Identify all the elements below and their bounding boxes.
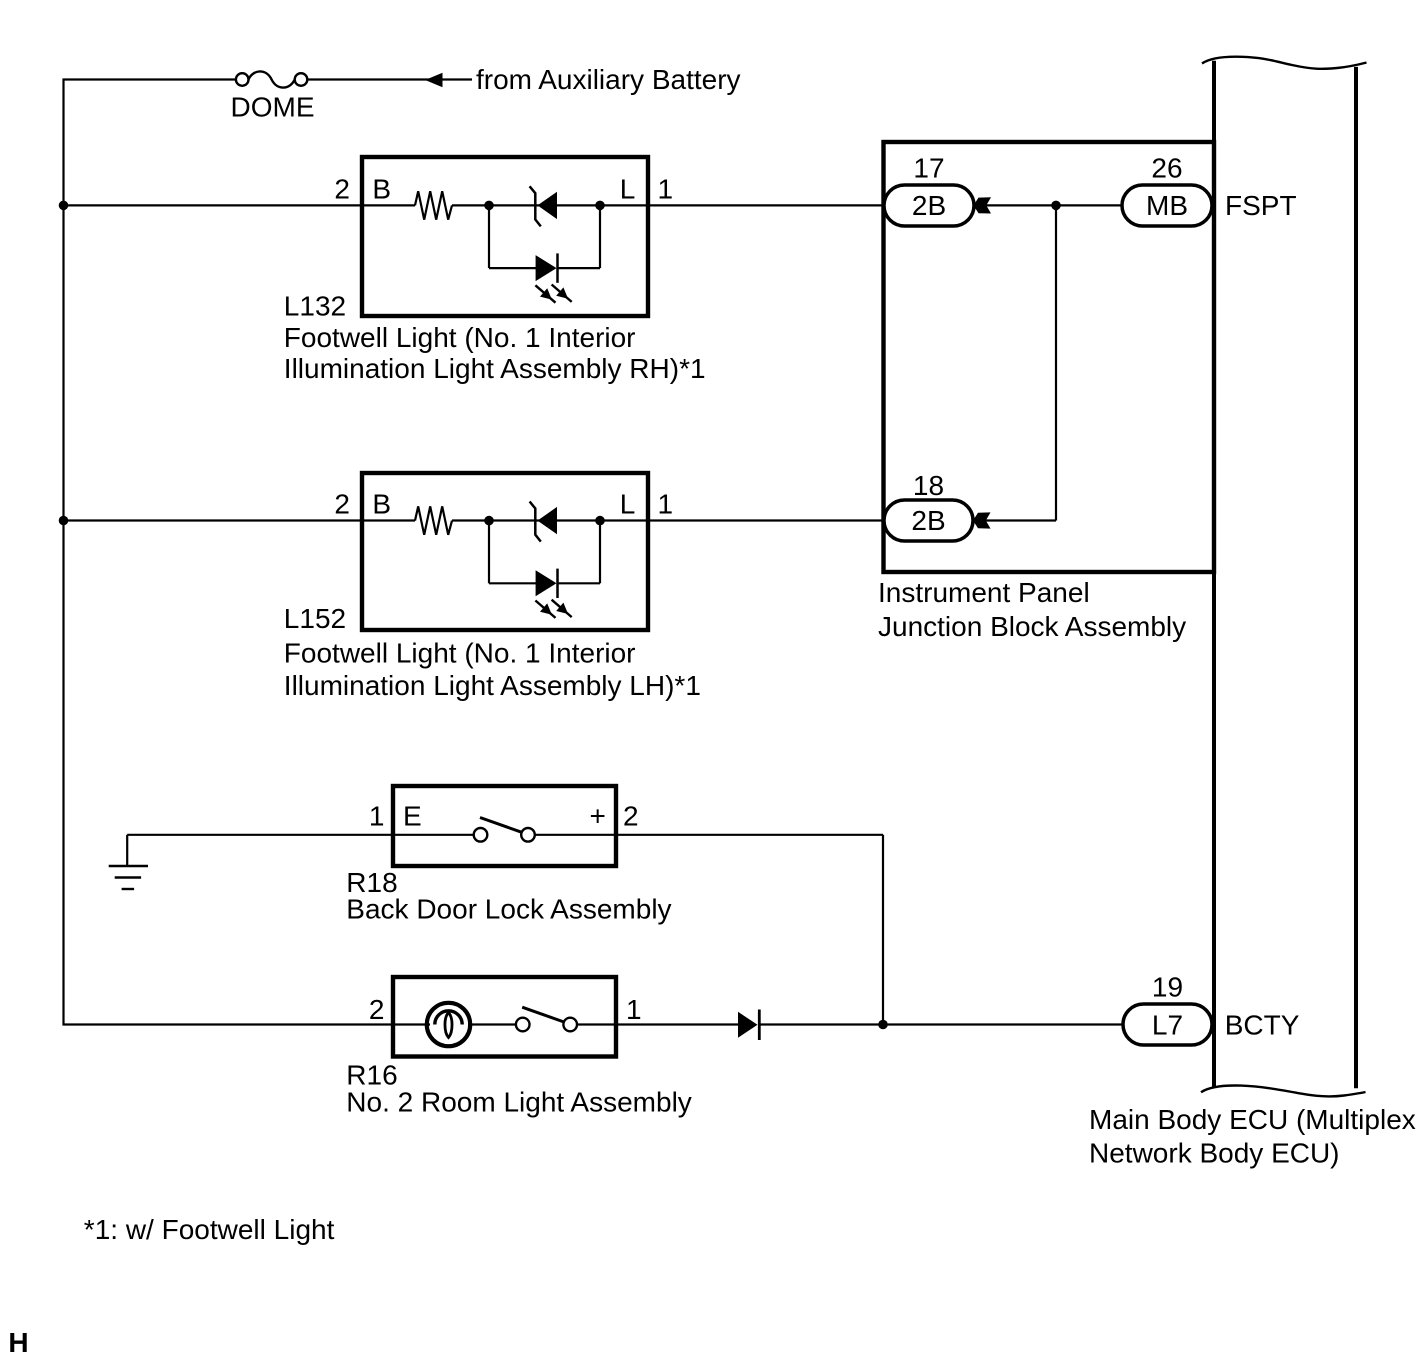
arrowhead from Auxiliary Battery <box>425 73 442 87</box>
svg-text:17: 17 <box>913 153 944 184</box>
svg-text:L152: L152 <box>284 603 346 634</box>
svg-text:18: 18 <box>913 470 944 501</box>
connector oval 19 L7 <box>1123 1004 1212 1045</box>
switch R16 <box>516 1007 577 1031</box>
node junction dot R16/R18 <box>878 1020 888 1030</box>
svg-text:Footwell Light (No. 1 Interior: Footwell Light (No. 1 Interior <box>284 637 636 668</box>
wire R16 internal left <box>395 1023 430 1025</box>
connector oval 17 2B <box>884 185 974 226</box>
svg-text:FSPT: FSPT <box>1225 190 1297 221</box>
instrument panel junction block box <box>884 142 1215 572</box>
footwell light L132 box <box>362 157 648 316</box>
svg-text:26: 26 <box>1151 153 1182 184</box>
svg-text:B: B <box>372 173 391 204</box>
light emission arrow 2 <box>552 285 572 302</box>
svg-text:L132: L132 <box>284 291 346 322</box>
wire R16 out <box>616 1023 738 1025</box>
svg-text:1: 1 <box>369 801 385 832</box>
svg-text:L: L <box>620 173 636 204</box>
resistor <box>415 191 452 219</box>
node dot right <box>595 201 605 211</box>
svg-text:Illumination Light Assembly RH: Illumination Light Assembly RH)*1 <box>284 353 706 384</box>
main body ECU bus right edge <box>1354 67 1358 1088</box>
svg-text:E: E <box>403 801 422 832</box>
node junction dot <box>1051 201 1061 211</box>
wire 2 from resistor to 2B connector <box>452 519 884 521</box>
node junction dot wire2 <box>59 516 69 526</box>
svg-text:Main Body ECU (Multiplex: Main Body ECU (Multiplex <box>1089 1104 1416 1135</box>
wire R16 internal right <box>577 1023 614 1025</box>
LED unit of L152 <box>415 502 605 618</box>
wire R18 out to vertical <box>616 834 883 836</box>
svg-text:No. 2 Room Light Assembly: No. 2 Room Light Assembly <box>346 1087 692 1118</box>
svg-text:DOME: DOME <box>231 92 315 123</box>
svg-text:Illumination Light Assembly LH: Illumination Light Assembly LH)*1 <box>284 670 701 701</box>
svg-text:19: 19 <box>1152 971 1183 1002</box>
wire left vertical bottom to R16 <box>63 1023 394 1025</box>
LED unit of L132 (resistor + LED + diode) <box>415 186 605 302</box>
svg-text:Instrument Panel: Instrument Panel <box>878 577 1090 608</box>
svg-text:2B: 2B <box>912 190 946 221</box>
bus torn bottom edge <box>1201 1085 1366 1096</box>
svg-text:BCTY: BCTY <box>1225 1009 1300 1040</box>
svg-text:Back Door Lock Assembly: Back Door Lock Assembly <box>346 893 671 924</box>
node dot left <box>484 201 494 211</box>
wire 1 from resistor to 2B connector <box>452 204 884 206</box>
wire vertical 1056 <box>1055 205 1057 520</box>
wire to 18 2B arrow <box>974 519 1056 521</box>
wire R18 internal left <box>395 834 474 836</box>
svg-text:2: 2 <box>334 489 350 520</box>
svg-text:Network Body ECU): Network Body ECU) <box>1089 1138 1340 1169</box>
svg-text:1: 1 <box>658 489 674 520</box>
wire from arrow to MB <box>974 204 1123 206</box>
main body ECU bus left edge <box>1212 61 1216 1088</box>
wire 1 to L132 <box>63 204 416 206</box>
fuse DOME <box>236 71 307 87</box>
wire from fuse to arrow <box>307 78 472 80</box>
svg-text:2: 2 <box>623 801 639 832</box>
wire vertical down to R16 wire <box>882 835 884 1025</box>
wire top horizontal from left corner to fuse <box>63 78 237 80</box>
svg-text:*1: w/ Footwell Light: *1: w/ Footwell Light <box>84 1214 335 1245</box>
svg-text:MB: MB <box>1146 190 1188 221</box>
diode D <box>738 1010 759 1041</box>
LED upper triangle (points left) <box>538 192 558 219</box>
room light R16 box <box>393 977 616 1057</box>
connector oval 26 MB <box>1122 185 1212 226</box>
svg-text:+: + <box>590 801 606 832</box>
svg-text:Junction Block Assembly: Junction Block Assembly <box>878 611 1186 642</box>
svg-text:L: L <box>620 489 636 520</box>
wire diode to L7 <box>759 1023 1124 1025</box>
wire R16 internal middle <box>468 1023 516 1025</box>
svg-text:2: 2 <box>334 173 350 204</box>
svg-text:1: 1 <box>658 173 674 204</box>
svg-text:B: B <box>372 489 391 520</box>
svg-text:L7: L7 <box>1152 1009 1183 1040</box>
svg-text:1: 1 <box>626 994 642 1025</box>
arrowhead into 2B 17 <box>974 197 992 213</box>
connector oval 18 2B <box>884 500 973 541</box>
diode lower cathode bar <box>556 253 559 282</box>
LED curved cathode <box>530 186 541 226</box>
wire branch horizontals <box>489 267 537 269</box>
switch R18 <box>474 818 535 842</box>
back door lock R18 box <box>393 786 616 866</box>
svg-text:Footwell Light (No. 1 Interior: Footwell Light (No. 1 Interior <box>284 322 636 353</box>
bus torn top edge <box>1202 57 1367 69</box>
svg-text:from Auxiliary Battery: from Auxiliary Battery <box>476 64 741 95</box>
svg-text:2: 2 <box>369 994 385 1025</box>
lamp bulb <box>427 1003 470 1046</box>
diode lower triangle (points right) <box>536 255 557 281</box>
wire 2 to L152 <box>63 519 416 521</box>
arrowhead into 2B 18 <box>973 512 991 528</box>
svg-text:H: H <box>8 1327 28 1358</box>
wire R18 internal right <box>535 834 614 836</box>
light emission arrow 1 <box>535 285 555 302</box>
svg-text:2B: 2B <box>911 505 945 536</box>
footwell light L152 box <box>362 473 648 630</box>
wire branch verticals <box>488 205 490 268</box>
ground symbol <box>109 835 148 889</box>
wire left vertical <box>62 79 64 1026</box>
node junction dot wire1 <box>59 201 69 211</box>
wire ground to R18 <box>127 834 393 836</box>
